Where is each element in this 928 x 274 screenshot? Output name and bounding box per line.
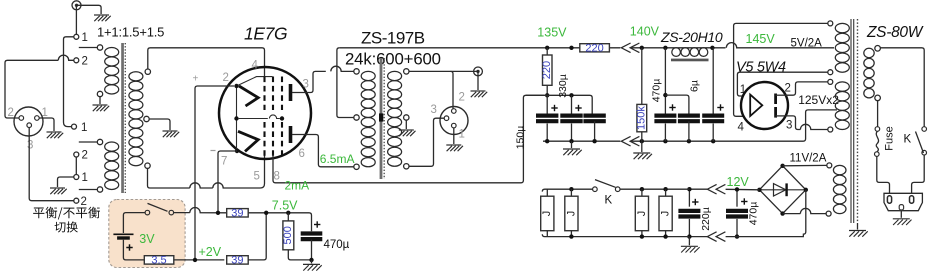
filament center link (236, 88, 238, 149)
relay J1 (546, 189, 548, 196)
wire XLR pin2 up to contact 2 (hops over vertical) (5, 55, 74, 118)
ground (XLR pin1) (47, 131, 62, 133)
svg-text:Fuse: Fuse (883, 126, 895, 150)
T1 primary winding 2 (97, 139, 102, 144)
XLR input connector (14, 107, 43, 136)
svg-text:140V: 140V (630, 25, 660, 39)
svg-text:500: 500 (282, 226, 294, 244)
svg-text:39: 39 (231, 207, 243, 219)
switch K (mains) (922, 127, 927, 132)
svg-text:1: 1 (81, 122, 87, 134)
filament upper (239, 86, 258, 106)
pin8 wire (screen) to filter (273, 95, 545, 183)
switch contact 1b (72, 124, 77, 129)
svg-text:470µ: 470µ (650, 79, 662, 103)
OPT primary terminals (354, 69, 359, 74)
T1 secondary CT to ground (149, 119, 170, 130)
RCA input jack J1 (72, 1, 81, 10)
bridge right corner down to return rail (738, 190, 806, 237)
rectifier envelope (741, 82, 788, 129)
svg-text:24k:600+600: 24k:600+600 (345, 49, 441, 68)
svg-text:220: 220 (585, 43, 603, 55)
resistor 500 (287, 213, 289, 221)
svg-text:3: 3 (431, 104, 437, 116)
resistor 3.5 (144, 256, 174, 264)
wire plate6 to OPT bottom (292, 135, 354, 167)
svg-text:150k: 150k (636, 106, 648, 130)
core shield ground (857, 223, 859, 230)
battery switch (145, 210, 150, 215)
ground (contacts) (50, 187, 65, 189)
svg-text:150µ: 150µ (514, 126, 526, 150)
minus mark (211, 150, 216, 152)
label balanced/unbalanced switch (33, 207, 100, 220)
cap 470u (12V) (736, 189, 738, 206)
svg-text:J: J (636, 211, 648, 217)
switch contact 2c (74, 198, 79, 203)
wire primary top to switch K (880, 48, 924, 127)
svg-text:1E7G: 1E7G (244, 24, 287, 44)
pin 7 wire down (218, 151, 237, 213)
svg-text:6: 6 (299, 148, 305, 160)
svg-text:1: 1 (42, 107, 48, 119)
svg-text:135V: 135V (537, 26, 567, 40)
battery box (highlight) (109, 200, 185, 268)
rectifier plates (774, 94, 777, 105)
switch contact 2 (upper section) (74, 58, 79, 63)
wire XLR pin1 to ground (39, 118, 54, 131)
relay rail top (542, 189, 689, 191)
node wire y95 (526, 95, 592, 113)
wire bridge top to 11V winding top (783, 164, 827, 166)
svg-text:470µ: 470µ (748, 202, 760, 226)
plate lower (pin6) (289, 126, 293, 143)
resistor 220 (shunt) (546, 48, 548, 55)
B+ drop to OPT center tap (337, 48, 354, 118)
svg-text:ZS-197B: ZS-197B (361, 29, 425, 48)
wire to +2V rail (174, 259, 225, 261)
svg-text:125Vx2: 125Vx2 (798, 93, 839, 107)
svg-text:+2V: +2V (199, 245, 222, 259)
T1 secondary winding (145, 69, 150, 74)
145V feed: vertical from B+ corner (734, 23, 828, 116)
AC plug (884, 193, 922, 210)
RCA output jack (474, 67, 483, 76)
svg-text:3V: 3V (139, 232, 155, 246)
wire RCA to contact 1 (75, 5, 77, 34)
grid wire: T1 sec top to tube pin4 (148, 48, 265, 78)
cap 470u (filament) (301, 231, 323, 235)
mains primary winding (875, 46, 881, 52)
relay J2 (570, 189, 572, 196)
grids (dashed) (263, 77, 265, 111)
battery to resistor 3.5 (123, 240, 144, 260)
wire XLR pin3 down to contact 2c (29, 128, 74, 201)
OPT secondary terminals (404, 69, 409, 74)
pin2 wire to filament+ and down left side (195, 86, 234, 260)
ground (12V return) (688, 237, 690, 246)
svg-text:J: J (565, 211, 577, 217)
relay J4 (665, 189, 667, 196)
wire RCA to ground (77, 5, 101, 14)
svg-text:1: 1 (82, 32, 88, 44)
svg-text:4: 4 (738, 122, 745, 134)
plate upper (pin3) (289, 84, 293, 101)
HV winding 125Vx2 (828, 79, 833, 84)
svg-text:2: 2 (459, 92, 465, 104)
resistor 39 (top) (227, 209, 249, 217)
svg-text:6µ: 6µ (688, 80, 700, 92)
core ZS-80W (850, 19, 852, 223)
filament tie line (pin2 to grid frame) (237, 77, 273, 86)
svg-text:1: 1 (459, 129, 465, 141)
5V winding bottom to pin 1 (737, 72, 827, 96)
svg-text:145V: 145V (746, 32, 776, 46)
chevrons on B+ rail (621, 43, 630, 53)
T1 primary winding 1 (97, 45, 102, 50)
tube envelope U1 (219, 67, 311, 159)
OPT primary winding (361, 71, 375, 80)
fuse (877, 101, 879, 127)
svg-text:J: J (541, 211, 553, 217)
svg-text:2: 2 (8, 107, 14, 119)
svg-text:2mA: 2mA (285, 179, 310, 193)
svg-text:2: 2 (223, 72, 229, 84)
link contact2b to contact1c (75, 157, 77, 175)
resistor 220 (series) (580, 44, 610, 52)
svg-text:K: K (904, 134, 912, 146)
relay rail bottom (542, 234, 689, 236)
cap 220u (12V) (688, 189, 690, 207)
wire XLR1 to ground (453, 128, 455, 144)
svg-text:J: J (660, 211, 672, 217)
wire fuse to plug left pin (877, 156, 890, 193)
svg-text:220µ: 220µ (700, 207, 712, 231)
svg-text:7: 7 (221, 156, 227, 168)
svg-text:5V/2A: 5V/2A (791, 38, 823, 50)
filament lower (238, 131, 258, 151)
ground (plug) (900, 211, 902, 218)
T1 core (121, 43, 124, 193)
svg-text:ZS-80W: ZS-80W (866, 24, 924, 41)
pole wire to transformer T1 primary1 top (79, 47, 98, 49)
svg-text:470µ: 470µ (324, 239, 350, 251)
svg-text:3: 3 (303, 79, 309, 91)
resistor 39 (bottom) (227, 256, 249, 264)
pin2 wire to HV top (786, 82, 828, 95)
OPT secondary CT ground (405, 120, 407, 129)
svg-text:K: K (605, 195, 613, 207)
ground (RCA input) (94, 14, 109, 16)
wire T1 sec bottom to tube pin5 (hops 2 verticals) (148, 155, 265, 189)
ground rail (right group) to HV CT (631, 110, 837, 141)
svg-text:39: 39 (231, 255, 243, 267)
svg-text:12V: 12V (727, 175, 750, 189)
wire plate3 to OPT top (hops B+ drop) (292, 66, 354, 92)
svg-text:1+1:1.5+1.5: 1+1:1.5+1.5 (97, 24, 164, 39)
svg-text:3.5: 3.5 (151, 255, 166, 267)
11V winding (827, 163, 832, 168)
top filament rail (174, 208, 312, 232)
filament dots (234, 84, 238, 88)
svg-text:1: 1 (82, 172, 88, 184)
svg-text:7.5V: 7.5V (272, 198, 298, 212)
wire bridge bottom to 11V winding bottom (hop) (783, 208, 827, 213)
pole wire to primary2 top (79, 141, 98, 143)
svg-text:V5 5W4: V5 5W4 (736, 59, 786, 75)
cap B (parallel) (665, 95, 689, 113)
wire sec top to RCA out (branch to XLR pin2) (409, 70, 478, 72)
ground (T1 primary1) (99, 97, 101, 104)
wire up to 7.5V node (248, 213, 266, 260)
switch contact 1c (74, 175, 79, 180)
ground (filament) (311, 260, 313, 264)
chevrons ground rail (621, 136, 630, 146)
switch contact 2b (74, 152, 79, 157)
pin3 wire to HV bottom (hops CT drop) (786, 116, 828, 130)
wire XLR3 to sec bottom (409, 118, 444, 166)
svg-text:3: 3 (786, 120, 792, 132)
OPT secondary winding (388, 71, 402, 80)
svg-text:330µ: 330µ (557, 74, 569, 98)
relay J3 (641, 189, 643, 196)
svg-text:11V/2A: 11V/2A (790, 152, 827, 164)
svg-text:2: 2 (82, 56, 88, 68)
switch contact 1 (upper section) (74, 34, 79, 39)
wire contact1c to ground (58, 177, 74, 187)
5V winding (828, 21, 833, 26)
svg-text:4: 4 (252, 60, 259, 72)
suppressor tie line with hop (239, 115, 280, 119)
svg-text:ZS-20H10: ZS-20H10 (660, 29, 723, 45)
resistor 150k (641, 48, 643, 105)
svg-text:5: 5 (254, 171, 260, 183)
rectifier filament triangle (750, 95, 762, 116)
svg-text:2: 2 (82, 150, 88, 162)
switch K (relay) (593, 187, 598, 192)
svg-text:+: + (193, 74, 199, 85)
ground rail (left group) (543, 140, 620, 142)
svg-text:220: 220 (541, 61, 553, 79)
svg-text:2: 2 (81, 196, 87, 208)
bridge rectifier (759, 166, 805, 214)
svg-text:6.5mA: 6.5mA (320, 152, 355, 166)
OPT core (380, 58, 383, 179)
svg-text:3: 3 (27, 140, 33, 152)
svg-text:8: 8 (274, 171, 280, 183)
cap 3 (unlabeled) (583, 113, 605, 117)
pole wire to primary2 bottom (79, 189, 98, 191)
return rail chevrons (689, 236, 739, 238)
B+ rail 135V (339, 47, 620, 49)
battery B1 3V (113, 233, 133, 235)
12V rail (bridge left to relays) with chevrons (689, 188, 759, 191)
wire contact1a down to contact1b (64, 37, 74, 127)
battery wire left (123, 213, 145, 233)
wire switch to plug right pin (912, 155, 925, 193)
XLR output connector (440, 107, 468, 135)
